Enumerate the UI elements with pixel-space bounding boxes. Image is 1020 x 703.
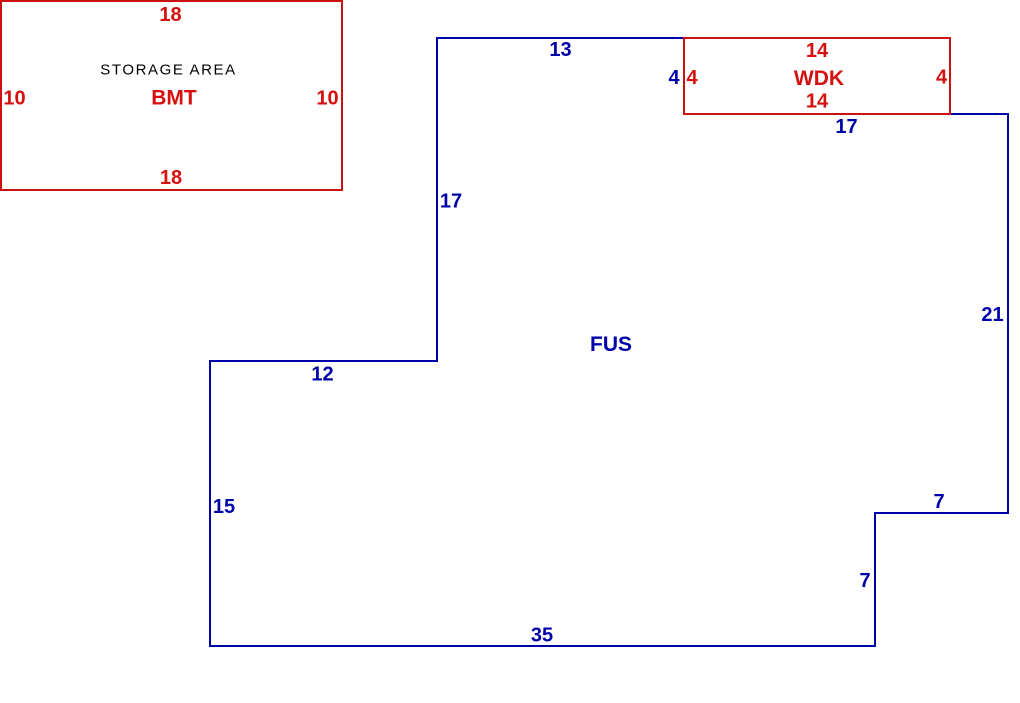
svg-text:7: 7 xyxy=(933,491,944,513)
svg-text:WDK: WDK xyxy=(794,67,844,90)
svg-text:10: 10 xyxy=(3,88,25,110)
svg-text:15: 15 xyxy=(213,496,235,518)
svg-text:10: 10 xyxy=(316,88,338,110)
svg-text:12: 12 xyxy=(311,364,333,386)
svg-text:4: 4 xyxy=(936,67,948,89)
svg-text:17: 17 xyxy=(835,116,857,138)
svg-text:18: 18 xyxy=(159,4,181,26)
svg-text:35: 35 xyxy=(531,625,553,647)
svg-text:STORAGE AREA: STORAGE AREA xyxy=(100,62,236,79)
svg-text:BMT: BMT xyxy=(151,87,197,110)
svg-text:7: 7 xyxy=(859,570,870,592)
area FUS outline xyxy=(210,38,1008,646)
svg-text:4: 4 xyxy=(686,67,698,89)
area BMT outline xyxy=(1,1,342,190)
svg-text:4: 4 xyxy=(668,67,680,89)
svg-text:13: 13 xyxy=(549,39,571,61)
svg-text:18: 18 xyxy=(160,167,182,189)
svg-text:14: 14 xyxy=(806,40,829,62)
svg-text:FUS: FUS xyxy=(590,333,632,356)
svg-text:14: 14 xyxy=(806,91,829,113)
area WDK outline xyxy=(684,38,950,114)
svg-text:21: 21 xyxy=(981,304,1003,326)
svg-text:17: 17 xyxy=(440,191,462,213)
